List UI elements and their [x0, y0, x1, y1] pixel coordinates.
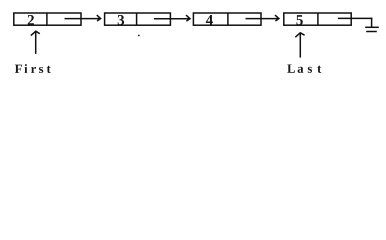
value label 2: [28, 15, 34, 25]
node box 3: [193, 13, 261, 25]
First label: [15, 64, 51, 73]
node box 2: [105, 13, 171, 25]
ground null terminator: [365, 27, 379, 31]
node box 1: [14, 13, 81, 25]
wire arrow from node 2 to node 3: [154, 15, 190, 21]
Last label: [287, 64, 321, 72]
stray dot: [138, 35, 140, 37]
value label 3: [118, 15, 124, 25]
First pointer arrow: [31, 31, 40, 54]
value label 5: [296, 15, 302, 25]
wire arrow from node 1 to node 2: [65, 15, 101, 21]
Last pointer arrow: [295, 33, 304, 58]
wire arrow from node 3 to node 4: [246, 15, 279, 21]
wire from node 4 to null terminator: [338, 18, 373, 28]
value label 4: [206, 15, 213, 25]
node box 4: [284, 13, 351, 25]
